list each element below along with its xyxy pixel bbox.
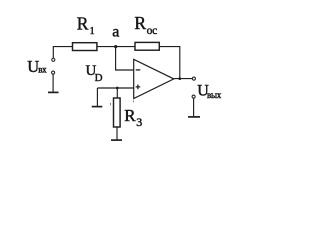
op-amp U1 <box>134 59 174 98</box>
wire Roc right lead and feedback vertical <box>159 47 180 79</box>
input terminal lower circle <box>52 71 55 74</box>
node R3/plus junction dot <box>116 87 119 90</box>
tick below op-amp <box>132 101 134 103</box>
svg-text:D: D <box>95 72 103 84</box>
wire noninverting input <box>97 87 133 89</box>
node output junction dot <box>178 77 181 80</box>
svg-text:R: R <box>134 13 146 33</box>
svg-text:вых: вых <box>207 90 222 100</box>
svg-text:R: R <box>77 14 89 34</box>
output lower terminal circle <box>192 95 195 98</box>
ground bar output <box>188 116 200 118</box>
input terminal upper circle <box>52 58 55 61</box>
node a junction dot <box>114 45 117 48</box>
wire node a down to inverting input <box>116 47 134 70</box>
svg-text:3: 3 <box>136 115 142 129</box>
resistor R3 <box>114 98 121 127</box>
tick left of R3 <box>109 103 111 106</box>
ground bar input <box>48 91 59 93</box>
resistor Roc <box>135 42 159 50</box>
wire R1 to Roc through node a <box>97 46 135 48</box>
wire input riser to R1 <box>53 47 72 59</box>
svg-text:вх: вх <box>38 65 47 75</box>
wire R3 bottom lead <box>116 127 118 140</box>
wire output lower terminal stub <box>193 98 195 116</box>
wire R3 top lead <box>116 88 118 98</box>
op-amp plus sign <box>136 85 141 90</box>
op-amp minus sign <box>136 69 141 71</box>
wire input lower terminal stub <box>52 74 54 92</box>
output terminal circle <box>192 77 195 80</box>
svg-text:ос: ос <box>147 25 158 37</box>
wire op-amp output <box>174 78 192 80</box>
svg-text:1: 1 <box>90 26 95 37</box>
wire UD drop <box>96 88 98 107</box>
ground bar UD <box>92 106 103 108</box>
svg-text:a: a <box>112 23 119 40</box>
resistor R1 <box>73 43 97 51</box>
ground bar R3 <box>111 139 122 141</box>
svg-text:R: R <box>124 106 136 125</box>
